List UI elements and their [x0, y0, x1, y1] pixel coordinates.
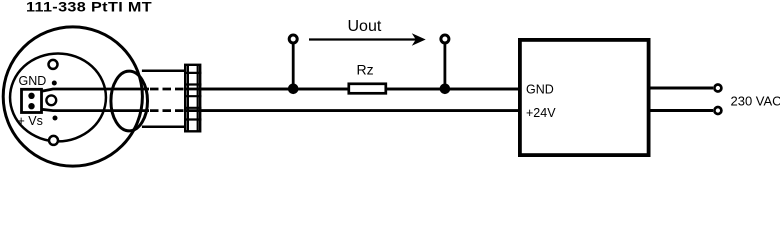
cable gland ellipse: [111, 71, 148, 131]
pin dot upper: [52, 81, 57, 86]
svg-text:GND: GND: [526, 82, 554, 96]
wire through strain relief top: [184, 88, 518, 91]
pin 2 (in terminal block): [28, 103, 34, 109]
mains terminal L: [714, 85, 721, 92]
svg-text:+ Vs: + Vs: [18, 114, 43, 128]
power supply box U1: [520, 40, 649, 155]
cable gland body rectangle: [142, 71, 187, 127]
svg-text:230 VAC: 230 VAC: [731, 94, 780, 109]
node junction left: [288, 84, 299, 95]
wire GND (top wire from sensor to supply box): [42, 89, 519, 91]
center pin circle: [46, 95, 56, 105]
wire terminal drop right: [443, 44, 446, 89]
resistor Rz: [349, 84, 386, 94]
pin 1 (in terminal block): [28, 93, 34, 99]
mounting hole bottom: [49, 136, 58, 145]
mounting hole top: [49, 60, 58, 69]
mains terminal N: [714, 107, 721, 114]
strain relief ribs: [184, 64, 202, 132]
svg-text:Uout: Uout: [348, 18, 382, 35]
test terminal left: [289, 35, 297, 43]
wire +Vs (bottom wire from sensor to supply box): [42, 109, 519, 110]
hidden wire dashed (bottom): [150, 109, 184, 112]
hidden wire dashed (top): [149, 87, 184, 90]
svg-text:111-338 PtTI MT: 111-338 PtTI MT: [26, 1, 152, 15]
pin dot lower: [53, 116, 58, 121]
wire through strain relief bottom: [184, 109, 518, 112]
sensor connector face inner circle: [10, 53, 106, 141]
node junction right: [440, 84, 451, 95]
test terminal right: [441, 35, 449, 43]
svg-text:GND: GND: [19, 74, 47, 88]
sensor head outer circle: [3, 27, 142, 166]
svg-text:Rz: Rz: [357, 62, 374, 78]
arrow Uout direction: [309, 38, 418, 40]
connector terminal block square: [22, 89, 42, 112]
wire mains L: [650, 87, 713, 90]
svg-text:+24V: +24V: [526, 106, 556, 120]
wire terminal drop left: [292, 44, 295, 89]
wire mains N: [650, 109, 713, 112]
